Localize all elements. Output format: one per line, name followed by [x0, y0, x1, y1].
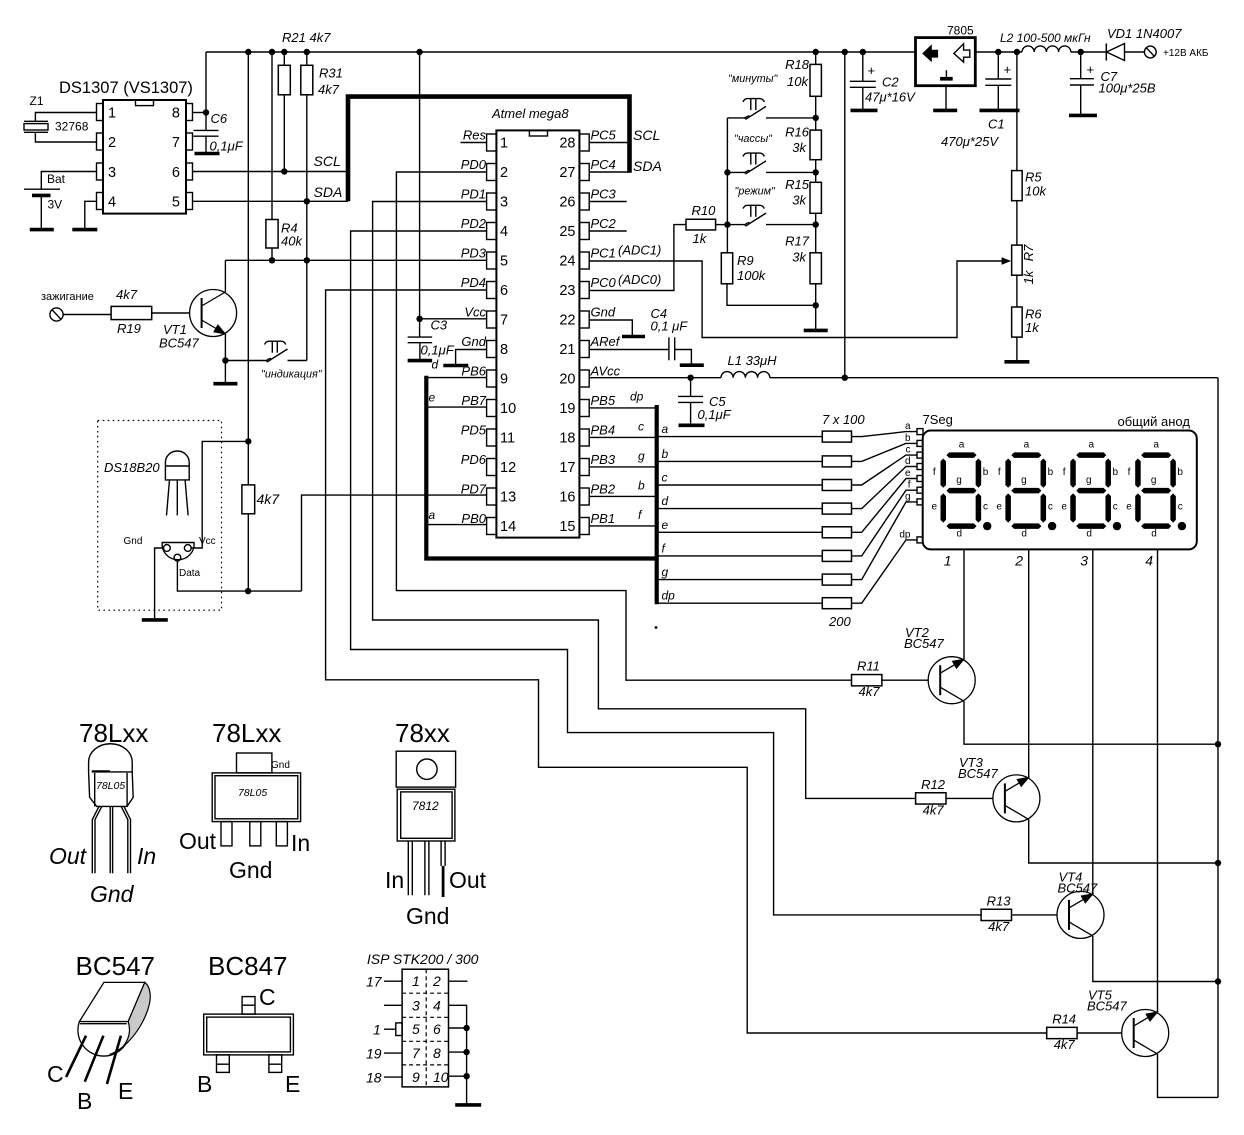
- svg-text:5: 5: [172, 195, 180, 211]
- svg-text:C1: C1: [988, 117, 1005, 132]
- wire ISP pin1: [384, 1028, 396, 1030]
- svg-text:Out: Out: [49, 843, 88, 869]
- ground under ISP: [455, 1103, 481, 1107]
- arrow R7 wiper: [1002, 257, 1012, 265]
- resistor segment b: [822, 456, 851, 467]
- ATmega pin 12 stub (PD6): [487, 459, 497, 476]
- svg-text:"индикация": "индикация": [261, 369, 323, 381]
- svg-text:1: 1: [108, 106, 116, 122]
- svg-text:4k7: 4k7: [988, 919, 1010, 934]
- svg-text:PD7: PD7: [461, 482, 487, 497]
- svg-text:C: C: [259, 984, 276, 1010]
- wire segment c to display: [852, 455, 918, 485]
- svg-text:R12: R12: [921, 777, 946, 792]
- svg-text:g: g: [662, 565, 669, 579]
- svg-text:b: b: [905, 433, 911, 444]
- package 78xx TO-220 tab: [396, 751, 455, 787]
- DS18B20 dotted outline: [98, 421, 222, 611]
- svg-text:Gnd: Gnd: [271, 760, 290, 771]
- svg-text:2: 2: [108, 135, 116, 151]
- wire DS1307 pin3 to battery: [41, 172, 96, 190]
- ATmega pin 23 stub (PC0): [579, 282, 589, 299]
- junction +5V / AVcc branch: [842, 49, 848, 55]
- junction VT2 emitter / rail: [1215, 741, 1221, 747]
- svg-text:B: B: [197, 1071, 212, 1097]
- junction +5V / C2: [860, 49, 866, 55]
- ATmega pin 19 stub (PB5): [579, 400, 589, 417]
- wire segment a from bus to resistor: [657, 436, 823, 438]
- svg-text:C3: C3: [431, 318, 448, 333]
- resistor R5: [1012, 171, 1023, 201]
- IC U2 DS1307 body: [103, 100, 186, 214]
- wire +5V rail to AVcc line: [844, 52, 846, 378]
- wire R9 bottom to ladder ground node: [727, 284, 816, 306]
- package BC547 legs: [66, 1036, 121, 1084]
- package BC847 top pin: [242, 997, 255, 1015]
- svg-text:PC0: PC0: [591, 275, 617, 290]
- svg-text:E: E: [118, 1078, 133, 1104]
- svg-text:PD3: PD3: [461, 246, 487, 261]
- svg-text:6: 6: [172, 165, 180, 181]
- wire digit4 anode to VT5: [1157, 549, 1159, 1012]
- svg-text:78L05: 78L05: [96, 780, 125, 792]
- svg-text:PB3: PB3: [591, 452, 616, 467]
- potentiometer R7: [1012, 245, 1023, 275]
- DS18B20 sensor package: [165, 451, 189, 480]
- wire DS18B20 Gnd to ground: [155, 548, 164, 620]
- wire ISP pin19: [384, 1052, 402, 1054]
- svg-text:+: +: [1004, 62, 1012, 77]
- wire indication switch to R31 column: [288, 360, 307, 362]
- ATmega pin 26 stub (PC3): [579, 193, 589, 210]
- junction +5V / Vcc column: [416, 49, 422, 55]
- ground under DS18B20: [142, 618, 168, 622]
- DS1307 pin 3 stub: [97, 163, 104, 180]
- svg-text:13: 13: [500, 490, 516, 506]
- junction R18/R16/button minutes: [813, 115, 819, 121]
- svg-text:R10: R10: [692, 203, 717, 218]
- wire DS1307 pin4 to ground: [85, 201, 97, 229]
- wire PC1 ADC1 to R7 wiper: [589, 261, 1003, 338]
- wire terminal to R19: [63, 314, 111, 316]
- svg-text:c: c: [638, 420, 644, 434]
- svg-text:R19: R19: [117, 321, 141, 336]
- svg-text:23: 23: [559, 283, 575, 299]
- resistor R31: [306, 52, 308, 65]
- resistor 4k7 pullup: [242, 485, 255, 514]
- display pin stub c: [917, 452, 923, 458]
- svg-text:7: 7: [412, 1045, 421, 1061]
- resistor R14: [1047, 1027, 1077, 1038]
- junction R16/R15/button hours: [813, 169, 819, 175]
- wire R15 to R17 node: [815, 213, 817, 253]
- svg-text:PD0: PD0: [461, 157, 487, 172]
- svg-text:10k: 10k: [1025, 184, 1047, 199]
- junction DS1307 pin8 / C6: [203, 109, 209, 115]
- svg-text:R17: R17: [785, 234, 810, 249]
- svg-text:a: a: [662, 422, 669, 436]
- svg-text:R13: R13: [987, 893, 1012, 908]
- svg-text:3V: 3V: [48, 198, 63, 212]
- svg-text:e: e: [662, 518, 669, 532]
- wire +5V right rail down: [1217, 378, 1219, 1098]
- svg-text:6: 6: [433, 1021, 441, 1037]
- svg-text:In: In: [291, 830, 310, 856]
- svg-text:SCL: SCL: [314, 153, 341, 169]
- ground under VT1: [213, 382, 237, 386]
- svg-text:25: 25: [559, 224, 575, 240]
- package 78Lxx SOT-89 tab: [237, 753, 272, 773]
- svg-text:4k7: 4k7: [116, 287, 138, 302]
- ground under R6: [1004, 360, 1029, 364]
- DS18B20 sensor legs: [167, 480, 170, 515]
- svg-text:Gnd: Gnd: [90, 881, 135, 907]
- wire button mode right: [766, 224, 816, 226]
- junction +5V / R4: [269, 49, 275, 55]
- wire segment dp to display: [852, 540, 918, 603]
- junction VT3 emitter / rail: [1215, 860, 1221, 866]
- svg-text:L1 33μH: L1 33μH: [728, 353, 778, 368]
- display pin stub e: [917, 476, 923, 482]
- display module box: [923, 431, 1197, 550]
- display pin stub d: [917, 464, 923, 470]
- wire Vcc column from +5V rail: [419, 52, 421, 337]
- svg-text:14: 14: [500, 519, 516, 535]
- svg-text:4k7: 4k7: [923, 802, 945, 817]
- wire VT2 emitter to +5V rail: [964, 701, 1218, 744]
- svg-text:3: 3: [1080, 553, 1088, 569]
- wire PD0 staircase to R11/VT2: [396, 172, 851, 680]
- svg-text:Vcc: Vcc: [464, 305, 486, 320]
- wire PD7 to DS18B20 data: [302, 495, 487, 591]
- junction PD3 / switch column: [304, 257, 310, 263]
- ground under C3: [408, 359, 433, 363]
- svg-text:a: a: [905, 421, 911, 432]
- resistor segment c: [822, 480, 851, 491]
- svg-text:3: 3: [500, 195, 508, 211]
- svg-text:PC5: PC5: [591, 128, 617, 143]
- svg-text:27: 27: [559, 165, 575, 181]
- wire DS1307 pin2 to crystal: [35, 132, 96, 142]
- svg-text:+: +: [868, 63, 876, 78]
- svg-text:470μ*25V: 470μ*25V: [941, 134, 999, 149]
- svg-text:24: 24: [559, 254, 575, 270]
- bus SCL/SDA thick link: [348, 97, 630, 202]
- svg-text:g: g: [638, 449, 645, 463]
- display digit 4: [1126, 440, 1186, 540]
- junction +5V / R18: [813, 49, 819, 55]
- svg-text:R31: R31: [319, 66, 343, 81]
- svg-text:26: 26: [559, 195, 575, 211]
- junction PD3 / R4: [269, 257, 275, 263]
- capacitor C7: [1080, 52, 1082, 79]
- wire DS1307 pin8 to C6 node: [193, 112, 207, 114]
- inductor L2: [1022, 46, 1071, 52]
- svg-text:"чассы": "чассы": [734, 133, 773, 145]
- svg-text:R9: R9: [737, 253, 754, 268]
- transistor VT3 BC547: [993, 775, 1040, 822]
- display digit 3: [1061, 440, 1121, 540]
- svg-text:"минуты": "минуты": [728, 73, 779, 85]
- inductor L1: [721, 372, 770, 378]
- capacitor C5: [690, 378, 692, 397]
- wire L1 to right rail: [770, 377, 1218, 379]
- svg-text:VD1 1N4007: VD1 1N4007: [1107, 26, 1182, 41]
- bus right segment bundle: [655, 405, 659, 604]
- wire button minutes right: [766, 117, 816, 119]
- ATmega pin 9 stub (PB6): [487, 370, 497, 387]
- svg-text:d: d: [905, 456, 911, 467]
- svg-text:1: 1: [944, 553, 952, 569]
- svg-text:BC847: BC847: [208, 951, 288, 981]
- svg-text:BC547: BC547: [958, 766, 999, 781]
- wire PB7 to left bus: [427, 406, 487, 408]
- svg-text:d: d: [662, 494, 669, 508]
- wire R13 to VT4 base: [1012, 914, 1058, 916]
- ATmega pin 22 stub (Gnd): [579, 311, 589, 328]
- svg-text:In: In: [385, 867, 404, 893]
- wire PB0 to left bus: [427, 524, 487, 526]
- 7805 output arrow outline: [954, 44, 970, 62]
- wire AVcc to L1 and +5V rail: [589, 377, 721, 379]
- wire R16 to R15 node: [815, 160, 817, 183]
- junction +5V / R31: [304, 49, 310, 55]
- resistor R19: [111, 306, 152, 319]
- svg-text:17: 17: [366, 974, 383, 990]
- svg-text:C: C: [47, 1061, 64, 1087]
- ATmega pin 24 stub (PC1): [579, 252, 589, 269]
- wire L2 to VD1: [1071, 51, 1106, 53]
- resistor segment e: [822, 527, 851, 538]
- svg-text:3k: 3k: [792, 193, 807, 208]
- switch indication: [266, 359, 271, 362]
- svg-text:0,1μF: 0,1μF: [421, 343, 455, 358]
- resistor R10: [686, 219, 716, 230]
- svg-text:17: 17: [559, 460, 575, 476]
- resistor segment a: [822, 431, 851, 442]
- svg-text:PB7: PB7: [461, 393, 486, 408]
- svg-text:4k7: 4k7: [257, 491, 281, 507]
- ATmega pin 18 stub (PB4): [579, 429, 589, 446]
- ATmega pin 28 stub (PC5): [579, 134, 589, 151]
- ground under C7: [1069, 114, 1097, 118]
- junction +5V / R21: [281, 49, 287, 55]
- svg-text:Out: Out: [449, 867, 487, 893]
- ground under C2: [851, 109, 878, 113]
- transistor VT1 BC547: [190, 290, 237, 337]
- wire 7805 output to L2: [975, 51, 1022, 53]
- svg-text:PB0: PB0: [461, 511, 486, 526]
- wire C6 node to +5V rail: [205, 52, 207, 130]
- svg-text:78L05: 78L05: [238, 787, 267, 799]
- svg-text:b: b: [638, 479, 645, 493]
- resistor R9: [721, 253, 732, 284]
- wire PB6 to left bus: [427, 377, 487, 379]
- svg-text:4k7: 4k7: [318, 82, 340, 97]
- wire 4k7 bottom to data node: [247, 514, 249, 591]
- package 78Lxx SOT-89 legs: [221, 822, 232, 846]
- svg-text:Gnd: Gnd: [229, 857, 272, 883]
- battery symbol: [24, 188, 60, 190]
- resistor R13: [981, 909, 1011, 920]
- junction R15/R17/button mode: [813, 221, 819, 227]
- wire VD1 to +12V terminal: [1125, 51, 1145, 53]
- display pin stub b: [917, 440, 923, 446]
- display pin stub a: [917, 429, 923, 435]
- svg-text:Gnd: Gnd: [406, 903, 449, 929]
- svg-text:0,1μF: 0,1μF: [698, 407, 732, 422]
- ATmega pin 5 stub (PD3): [487, 252, 497, 269]
- bus left segment bundle: [426, 376, 656, 559]
- ground under 7805: [933, 109, 957, 113]
- diode VD1 1N4007: [1105, 44, 1107, 61]
- wire data node to PD7 column: [248, 590, 301, 592]
- svg-text:Res: Res: [463, 128, 487, 143]
- package 78Lxx SOT-89 body: [212, 773, 300, 822]
- wire R12 to VT3 base: [946, 797, 993, 799]
- resistor R6: [1012, 307, 1023, 337]
- wire PD1 staircase to R12/VT3: [373, 202, 916, 799]
- DS18B20 pin Data: [174, 554, 181, 561]
- ATmega pin 10 stub (PB7): [487, 400, 497, 417]
- svg-text:зажигание: зажигание: [41, 291, 94, 303]
- wire ladder ground stem: [815, 305, 817, 330]
- button minutes: [745, 116, 750, 119]
- package 78xx TO-220 body: [397, 789, 455, 841]
- junction VT4 emitter / rail: [1215, 978, 1221, 984]
- svg-text:(ADC1): (ADC1): [618, 243, 661, 258]
- resistor R17: [810, 253, 821, 284]
- svg-text:2: 2: [500, 165, 508, 181]
- regulator U3 7805 body: [916, 38, 976, 86]
- ATmega pin 3 stub (PD1): [487, 193, 497, 210]
- ATmega pin 6 stub (PD4): [487, 282, 497, 299]
- junction button column / hours: [724, 169, 730, 175]
- wire segment b to display: [852, 443, 918, 461]
- svg-text:9: 9: [500, 372, 508, 388]
- svg-text:200: 200: [828, 614, 851, 629]
- transistor VT4 BC547: [1057, 891, 1104, 938]
- svg-text:22: 22: [559, 313, 575, 329]
- wire R6 to ground: [1016, 337, 1018, 362]
- wire PD3 to VT1 collector: [225, 259, 486, 261]
- stray dot: [655, 626, 658, 629]
- wire Res stub: [461, 142, 487, 144]
- svg-text:3k: 3k: [792, 250, 807, 265]
- svg-text:PB4: PB4: [591, 423, 616, 438]
- svg-text:Gnd: Gnd: [124, 536, 143, 547]
- svg-text:AVcc: AVcc: [590, 364, 621, 379]
- svg-text:78xx: 78xx: [395, 718, 450, 748]
- svg-text:dp: dp: [662, 589, 676, 603]
- svg-text:8: 8: [500, 342, 508, 358]
- junction SCL / R21: [281, 168, 287, 174]
- svg-text:4: 4: [433, 997, 441, 1013]
- DS18B20 pin Vcc: [184, 545, 191, 552]
- svg-text:9: 9: [412, 1069, 420, 1085]
- wire PC2 stub: [589, 230, 627, 232]
- svg-text:c: c: [906, 445, 911, 456]
- 7805 input arrow filled: [922, 44, 938, 62]
- terminal +12V battery: [1144, 46, 1156, 58]
- wire segment c from bus to resistor: [657, 484, 823, 486]
- svg-text:4k7: 4k7: [1054, 1037, 1076, 1052]
- svg-text:C6: C6: [211, 111, 228, 126]
- wire ISP pin18: [384, 1076, 402, 1078]
- svg-text:ISP STK200 / 300: ISP STK200 / 300: [367, 951, 479, 967]
- svg-text:"режим": "режим": [735, 186, 777, 198]
- svg-text:ARef: ARef: [590, 334, 621, 349]
- junction +5V branch to AVcc line: [842, 375, 848, 381]
- svg-text:L2 100-500 мкГн: L2 100-500 мкГн: [1000, 31, 1091, 45]
- wire PB5 dp to bus: [589, 407, 657, 409]
- svg-text:7812: 7812: [412, 799, 439, 813]
- svg-text:32768: 32768: [55, 120, 89, 134]
- wire PB2 b to bus: [589, 495, 657, 497]
- capacitor C4: [668, 337, 670, 360]
- svg-text:PD4: PD4: [461, 275, 486, 290]
- wire PB1 f to bus: [589, 525, 657, 527]
- capacitor C6: [194, 129, 219, 131]
- ATmega pin 2 stub (PD0): [487, 164, 497, 181]
- package BC847 bottom pins: [217, 1055, 230, 1073]
- svg-text:e: e: [905, 468, 911, 479]
- junction button column / mode / R10: [724, 221, 730, 227]
- junction AVcc / C5: [687, 375, 693, 381]
- svg-text:11: 11: [500, 431, 515, 447]
- ATmega pin 15 stub (PB1): [579, 518, 589, 535]
- svg-text:PB2: PB2: [591, 482, 616, 497]
- wire button minutes left: [727, 117, 745, 119]
- svg-text:f: f: [908, 480, 911, 491]
- svg-text:7: 7: [500, 313, 508, 329]
- svg-text:BC547: BC547: [1058, 880, 1099, 895]
- svg-text:C2: C2: [882, 75, 899, 90]
- junction ladder ground node: [813, 302, 819, 308]
- svg-text:10k: 10k: [787, 74, 809, 89]
- wire ISP pin3: [384, 1004, 402, 1006]
- svg-text:+12В АКБ: +12В АКБ: [1163, 48, 1209, 59]
- ground under ATmega pin22: [622, 335, 645, 339]
- wire ISP pin4 to ground column: [449, 1005, 467, 1105]
- svg-text:47μ*16V: 47μ*16V: [865, 90, 916, 105]
- ATmega pin 4 stub (PD2): [487, 223, 497, 240]
- resistor R12: [916, 793, 946, 804]
- wire ARef to C4: [589, 349, 669, 351]
- junction R5 column: [1014, 49, 1020, 55]
- svg-text:5: 5: [412, 1021, 420, 1037]
- svg-text:b: b: [662, 447, 669, 461]
- DS18B20 pin Gnd: [164, 545, 171, 552]
- ATmega pin 1 stub (Res): [487, 134, 497, 151]
- resistor segment f: [822, 550, 851, 561]
- wire R18 to R16 node: [815, 96, 817, 130]
- svg-text:Gnd: Gnd: [461, 334, 486, 349]
- wire DS18B20 Vcc to pullup node: [191, 441, 248, 548]
- svg-text:g: g: [905, 491, 911, 502]
- junction C7: [1078, 49, 1084, 55]
- svg-text:1k: 1k: [1025, 320, 1040, 335]
- svg-text:BC547: BC547: [904, 636, 945, 651]
- wire Gnd pin22 to ground: [589, 320, 632, 336]
- ATmega pin 16 stub (PB2): [579, 488, 589, 505]
- wire R5 to R7: [1016, 201, 1018, 245]
- svg-text:+: +: [1087, 62, 1095, 77]
- DS1307 pin 2 stub: [97, 133, 104, 150]
- wire PB3 g to bus: [589, 466, 657, 468]
- svg-text:7 x 100: 7 x 100: [822, 412, 865, 427]
- svg-text:28: 28: [559, 136, 575, 152]
